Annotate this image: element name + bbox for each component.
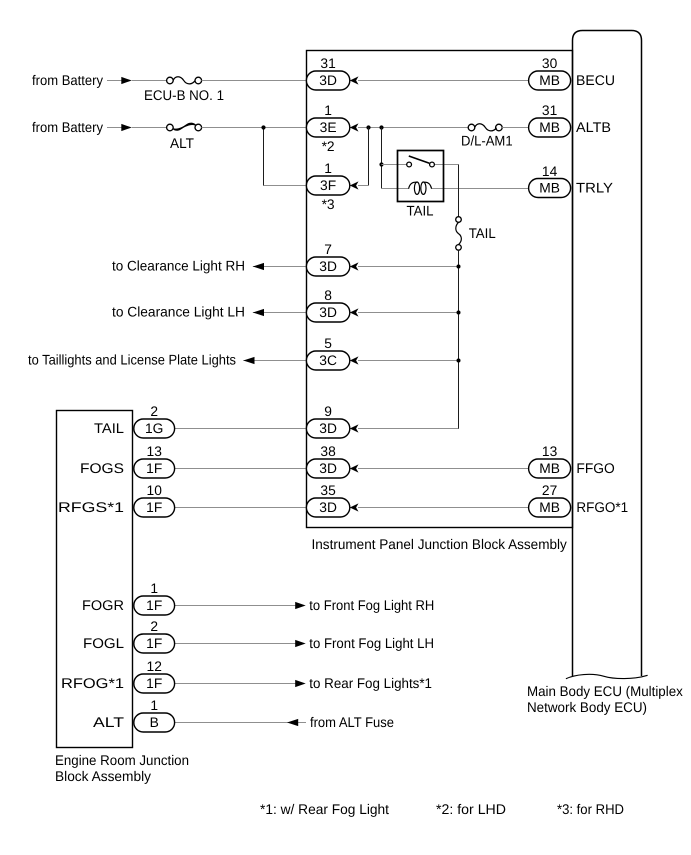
label to Front Fog Light LH: [309, 635, 434, 651]
vertical wire 3E branch to relay: [381, 128, 383, 189]
svg-text:30: 30: [542, 56, 558, 71]
svg-text:3D: 3D: [319, 259, 337, 274]
wire relay switch output: [434, 164, 458, 166]
label ALTB: [576, 119, 611, 135]
wire MB to 3D row y507: [358, 507, 529, 509]
wire bus corner to 3D pin9: [358, 428, 459, 430]
vertical bus wire tail feed: [458, 250, 460, 429]
svg-text:from ALT Fuse: from ALT Fuse: [310, 714, 394, 730]
arrow in from ALT Fuse: [287, 719, 298, 726]
svg-text:BECU: BECU: [576, 72, 615, 88]
arrow from Battery row 1: [121, 77, 132, 84]
fuse D/L-AM1: [461, 124, 513, 149]
connector 1F pin 13: [134, 444, 175, 478]
connector MB pin 27: [529, 483, 571, 517]
arrow into 3C pin 5: [350, 356, 359, 364]
wire 1G to 3D pin9: [175, 428, 308, 430]
vertical wire 3E branch to 3F arrow: [368, 128, 370, 186]
relay TAIL box: [398, 151, 444, 202]
svg-text:RFGO*1: RFGO*1: [576, 499, 628, 515]
wire connector 3D pin31 to MB pin30: [358, 80, 529, 82]
wire relay coil feed: [382, 188, 409, 190]
wire fuse D/L-AM1 to MB pin31: [502, 127, 529, 129]
svg-text:2: 2: [150, 619, 158, 634]
svg-text:MB: MB: [539, 73, 560, 88]
wire arrow to fuse ALT: [132, 127, 167, 129]
svg-text:3E: 3E: [320, 120, 337, 135]
wire from Battery to arrow (row 2): [107, 127, 122, 129]
Main Body ECU box: [573, 31, 642, 677]
connector B pin 1: [134, 698, 175, 732]
connector MB pin 14: [529, 164, 571, 198]
label RFOG*1: [61, 675, 124, 691]
arrow out to light row y360: [243, 357, 254, 364]
arrow into 3D pin 31: [350, 76, 359, 84]
svg-text:to Front Fog Light LH: to Front Fog Light LH: [309, 635, 434, 651]
svg-text:3D: 3D: [319, 500, 337, 515]
svg-text:*3: for RHD: *3: for RHD: [557, 801, 624, 817]
junction dot bus y360: [457, 359, 461, 363]
arrow into 3D pin 7: [350, 262, 359, 270]
svg-text:TAIL: TAIL: [94, 420, 124, 436]
svg-text:1: 1: [324, 161, 332, 176]
arrow into 3D row y468: [350, 464, 359, 472]
svg-text:from Battery: from Battery: [32, 119, 103, 135]
svg-text:1F: 1F: [146, 676, 162, 691]
wire B to from-ALT-Fuse: [175, 722, 307, 724]
svg-text:RFOG*1: RFOG*1: [61, 675, 124, 691]
label relay TAIL: [407, 203, 434, 219]
svg-text:*2: *2: [322, 139, 335, 154]
connector 1G pin 2: [134, 404, 175, 438]
svg-text:27: 27: [542, 483, 557, 498]
svg-text:14: 14: [542, 164, 558, 179]
svg-text:to Rear Fog Lights*1: to Rear Fog Lights*1: [309, 675, 432, 691]
Instrument Panel Junction Block Assembly box: [307, 51, 573, 528]
svg-text:3C: 3C: [319, 353, 337, 368]
svg-text:MB: MB: [539, 461, 560, 476]
wire 3F arrow stub: [358, 185, 368, 187]
svg-text:1: 1: [150, 698, 158, 713]
arrow out to light row y312: [253, 309, 264, 316]
wire fuse ECU-B to connector 3D: [202, 80, 308, 82]
relay switch contact right: [430, 162, 435, 167]
svg-text:ALTB: ALTB: [576, 119, 611, 135]
svg-text:*1: w/ Rear Fog Light: *1: w/ Rear Fog Light: [260, 801, 389, 817]
label from Battery row 1: [32, 72, 103, 88]
in-line connector TAIL: [456, 217, 496, 251]
connector 1F pin 1 (FOGR): [134, 581, 175, 615]
svg-text:3D: 3D: [319, 73, 337, 88]
arrow from Battery row 2: [121, 124, 132, 131]
svg-text:FOGS: FOGS: [80, 460, 124, 476]
label from ALT Fuse: [310, 714, 394, 730]
wire arrow to fuse ECU-B: [132, 80, 167, 82]
label TRLY: [576, 180, 614, 196]
svg-text:ECU-B NO. 1: ECU-B NO. 1: [144, 87, 224, 103]
svg-text:3D: 3D: [319, 461, 337, 476]
label from Battery row 2: [32, 119, 103, 135]
connector 1F pin 2 (FOGL): [134, 619, 175, 653]
relay coil: [409, 182, 432, 194]
svg-text:*2: for LHD: *2: for LHD: [436, 801, 506, 817]
junction dot branch to TAIL relay: [379, 125, 383, 129]
svg-text:Instrument Panel Junction Bloc: Instrument Panel Junction Block Assembly: [312, 536, 567, 552]
connector 3D pin 38: [306, 444, 349, 478]
connector MB pin 13: [529, 444, 571, 478]
wire bus to 3D pin8: [358, 312, 459, 314]
svg-text:TRLY: TRLY: [576, 180, 614, 196]
connector 3D pin 35: [306, 483, 349, 517]
fuse ECU-B NO. 1: [144, 77, 224, 103]
svg-text:1: 1: [324, 103, 332, 118]
label to Front Fog Light RH: [309, 597, 434, 613]
label RFGS*1: [58, 499, 124, 515]
connector 3D pin 8: [306, 288, 349, 322]
svg-text:*3: *3: [322, 197, 335, 212]
svg-text:10: 10: [147, 483, 163, 498]
svg-text:TAIL: TAIL: [469, 225, 496, 241]
relay switch contact left: [407, 162, 412, 167]
wire 3D pin8 to out-arrow: [253, 312, 307, 314]
svg-text:from Battery: from Battery: [32, 72, 103, 88]
svg-text:to Clearance Light RH: to Clearance Light RH: [112, 258, 245, 274]
junction dot branch to 3F: [366, 125, 370, 129]
wire 3E arrow to fuse D/L-AM1: [358, 127, 468, 129]
svg-text:FOGL: FOGL: [83, 635, 124, 651]
caption Instrument Panel Junction Block Assembly: [312, 536, 567, 552]
label ALT engine block: [93, 714, 125, 730]
svg-text:1F: 1F: [146, 636, 162, 651]
wire bus to 3C pin5: [358, 360, 459, 362]
label FOGS: [80, 460, 124, 476]
svg-text:FFGO: FFGO: [576, 460, 615, 476]
label to Clearance Light RH: [112, 258, 245, 274]
footnote *1 w/ Rear Fog Light: [260, 801, 389, 817]
fusible link ALT: [167, 123, 202, 151]
junction dot bus y266: [457, 265, 461, 269]
svg-text:FOGR: FOGR: [82, 597, 124, 613]
junction dot relay switch feed: [379, 162, 383, 166]
wire 3D pin7 to out-arrow: [253, 266, 307, 268]
svg-text:31: 31: [542, 103, 557, 118]
svg-text:MB: MB: [539, 500, 560, 515]
svg-text:1G: 1G: [145, 421, 163, 436]
arrow out to light row y266: [253, 263, 264, 270]
svg-text:ALT: ALT: [170, 135, 194, 151]
connector 3E pin 1: [306, 103, 349, 154]
connector 1F pin 10: [134, 483, 175, 517]
label FFGO: [576, 460, 615, 476]
svg-text:9: 9: [324, 404, 332, 419]
arrow into 3E pin 1: [350, 123, 359, 131]
vertical wire ALT branch to 3F left: [263, 128, 265, 186]
label to Clearance Light LH: [112, 304, 245, 320]
Main Body ECU box torn bottom edge: [566, 674, 648, 678]
wire fuse ALT to connector 3E: [202, 127, 308, 129]
svg-text:D/L-AM1: D/L-AM1: [461, 133, 513, 149]
arrow out RFOG*1: [295, 680, 306, 687]
connector MB pin 30: [529, 56, 571, 90]
svg-text:ALT: ALT: [93, 714, 125, 730]
connector 3C pin 5: [306, 336, 349, 370]
connector 1F pin 12 (RFOG*1): [134, 659, 175, 693]
svg-text:5: 5: [324, 336, 332, 351]
wire from Battery to arrow (row 1): [107, 80, 122, 82]
svg-text:to Taillights and License Plat: to Taillights and License Plate Lights: [28, 352, 236, 368]
arrow into 3D pin 9: [350, 424, 359, 432]
connector 3D pin 9: [306, 404, 349, 438]
svg-text:7: 7: [324, 242, 332, 257]
svg-text:13: 13: [542, 444, 558, 459]
vertical wire switch output down: [458, 165, 460, 217]
wire 1F FOGR to arrow: [175, 605, 296, 607]
connector MB pin 31: [529, 103, 571, 137]
svg-text:Engine Room Junction: Engine Room Junction: [55, 752, 189, 768]
svg-text:1: 1: [150, 581, 158, 596]
label FOGR: [82, 597, 124, 613]
label to Taillights and License Plate Lights: [28, 352, 236, 368]
svg-text:RFGS*1: RFGS*1: [58, 499, 124, 515]
svg-text:to Clearance Light LH: to Clearance Light LH: [112, 304, 245, 320]
label to Rear Fog Lights*1: [309, 675, 432, 691]
svg-text:35: 35: [320, 483, 336, 498]
svg-text:38: 38: [320, 444, 336, 459]
arrow into 3F pin 1: [350, 181, 359, 189]
wire to relay switch contact: [382, 164, 407, 166]
svg-text:to Front Fog Light RH: to Front Fog Light RH: [309, 597, 434, 613]
footnote *3 for RHD: [557, 801, 624, 817]
connector 3D pin 7: [306, 242, 349, 276]
Engine Room Junction Block Assembly box: [57, 411, 133, 748]
label BECU: [576, 72, 615, 88]
arrow out FOGR: [295, 602, 306, 609]
wire 3C pin5 to out-arrow: [243, 360, 307, 362]
arrow into 3D pin 8: [350, 308, 359, 316]
wire 1F FOGL to arrow: [175, 643, 296, 645]
relay switch blade: [409, 156, 430, 163]
connector 3D pin 31: [306, 56, 349, 90]
svg-text:12: 12: [147, 659, 162, 674]
svg-text:1F: 1F: [146, 500, 162, 515]
svg-text:MB: MB: [539, 120, 560, 135]
svg-text:3D: 3D: [319, 305, 337, 320]
svg-text:B: B: [150, 715, 159, 730]
wire 1F to 3D row y507: [175, 507, 308, 509]
svg-text:31: 31: [320, 56, 335, 71]
connector 3F pin 1: [306, 161, 349, 212]
caption Main Body ECU: [527, 683, 683, 715]
label TAIL engine block: [94, 420, 124, 436]
footnote *2 for LHD: [436, 801, 506, 817]
wire MB to 3D row y468: [358, 468, 529, 470]
wire left branch to connector 3F: [264, 185, 308, 187]
wire bus to 3D pin7: [358, 266, 459, 268]
svg-text:TAIL: TAIL: [407, 203, 434, 219]
svg-text:1F: 1F: [146, 461, 162, 476]
svg-text:Network Body ECU): Network Body ECU): [527, 699, 647, 715]
svg-text:1F: 1F: [146, 598, 162, 613]
svg-text:MB: MB: [539, 181, 560, 196]
wire 1F to 3D row y468: [175, 468, 308, 470]
label RFGO*1: [576, 499, 628, 515]
svg-text:13: 13: [147, 444, 163, 459]
svg-text:2: 2: [150, 404, 158, 419]
wire 1F RFOG*1 to arrow: [175, 683, 296, 685]
svg-text:8: 8: [324, 288, 332, 303]
svg-text:3F: 3F: [320, 178, 336, 193]
arrow out FOGL: [295, 640, 306, 647]
caption Engine Room Junction: [55, 752, 189, 784]
svg-text:Main Body ECU (Multiplex: Main Body ECU (Multiplex: [527, 683, 683, 699]
label FOGL: [83, 635, 124, 651]
svg-text:Block Assembly: Block Assembly: [55, 768, 151, 784]
junction dot ALT branch left: [261, 125, 265, 129]
junction dot bus y312: [457, 311, 461, 315]
wire relay coil to MB pin14: [432, 188, 529, 190]
arrow into 3D row y507: [350, 503, 359, 511]
svg-text:3D: 3D: [319, 421, 337, 436]
